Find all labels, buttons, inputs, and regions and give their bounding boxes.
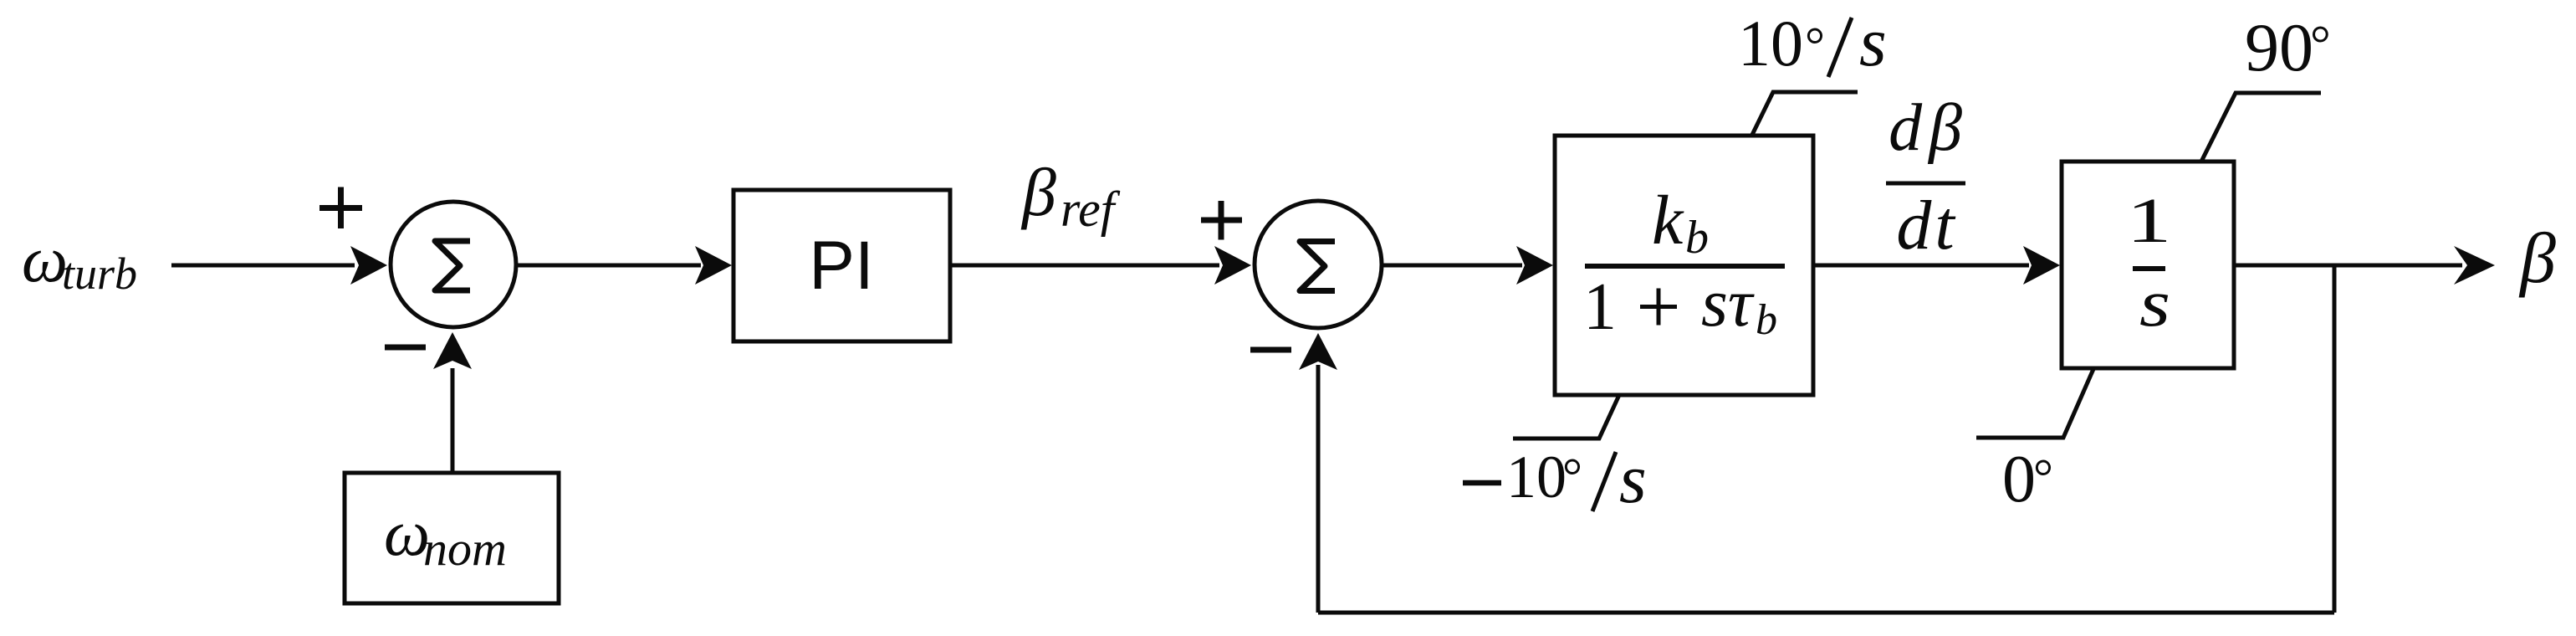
svg-text:turb: turb: [62, 249, 137, 299]
summing junction S2: [1255, 201, 1382, 328]
1 numerator of integrator: [2127, 186, 2172, 256]
svg-text:β: β: [1020, 154, 1056, 230]
saturation lower tick on integrator: [1976, 369, 2093, 438]
saturation upper tick on integrator: [2201, 93, 2321, 162]
svg-text:s: s: [1619, 440, 1647, 518]
svg-text:PI: PI: [809, 228, 873, 304]
block PI controller: [733, 190, 950, 341]
svg-text:°: °: [1562, 449, 1582, 504]
label -10 deg per s: [1463, 480, 1501, 486]
svg-text:b: b: [1756, 296, 1777, 344]
svg-text:°: °: [2310, 16, 2331, 73]
sigma symbol in S2: [1300, 242, 1335, 291]
wire actuator to integrator: [1813, 246, 2060, 285]
svg-text:b: b: [1685, 212, 1709, 264]
svg-text:sτ: sτ: [1701, 264, 1755, 341]
svg-text:dt: dt: [1896, 187, 1956, 264]
svg-text:1: 1: [2127, 186, 2172, 256]
svg-text:s: s: [2139, 267, 2170, 341]
wire omega_nom to S1: [433, 332, 472, 473]
wire S1 to PI block: [518, 246, 732, 285]
wire PI to sum junction S2: [950, 246, 1251, 285]
svg-text:ref: ref: [1061, 182, 1121, 237]
plus sign at S2: [1201, 201, 1242, 240]
svg-text:°: °: [2033, 449, 2053, 505]
svg-text:ω: ω: [22, 223, 68, 295]
fraction bar of dbeta/dt: [1886, 182, 1965, 186]
svg-text:°: °: [1805, 18, 1825, 73]
svg-text:k: k: [1652, 182, 1684, 259]
plus sign at S1: [319, 187, 362, 229]
wire feedback bottom run: [1318, 611, 2334, 615]
block omega_nom reference: [345, 473, 559, 603]
svg-text:1: 1: [1583, 270, 1617, 344]
svg-text:0: 0: [2002, 443, 2036, 516]
block pitch actuator kb/(1+s tau_b): [1555, 136, 1813, 395]
fraction bar of 1/s: [2133, 266, 2165, 271]
svg-text:β: β: [2518, 218, 2556, 298]
svg-text:10: 10: [1738, 7, 1803, 79]
svg-text:90: 90: [2245, 9, 2313, 85]
svg-text:s: s: [1859, 3, 1887, 81]
wire feedback up to S2: [1299, 333, 1337, 613]
svg-text:10: 10: [1506, 444, 1567, 510]
wire input to sum junction S1: [171, 246, 387, 285]
summing junction S1: [391, 202, 516, 327]
minus sign at S1: [385, 345, 426, 351]
block integrator 1/s: [2062, 162, 2234, 368]
fraction bar of kb/(1+s tau_b): [1585, 264, 1785, 269]
wire integrator to output: [2234, 246, 2495, 285]
svg-text:nom: nom: [423, 521, 507, 576]
sigma symbol in S1: [435, 241, 470, 290]
wire S2 to pitch actuator block: [1383, 246, 1553, 285]
minus sign at S2: [1250, 347, 1291, 353]
wire feedback down from junction tap: [2333, 265, 2337, 613]
rate limit lower tick on actuator: [1513, 395, 1619, 439]
rate limit upper tick on actuator: [1752, 92, 1858, 135]
